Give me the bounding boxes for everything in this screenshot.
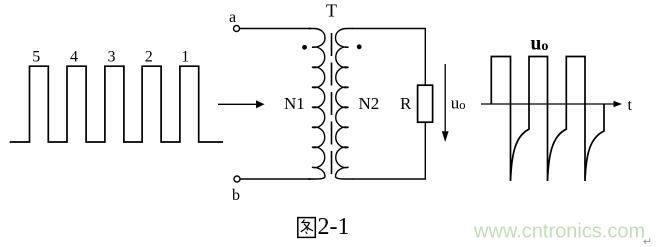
output waveform uo trace [491, 57, 604, 182]
wire resistor bottom to N2 bottom [352, 122, 425, 179]
svg-text:R: R [400, 94, 412, 113]
caption figure 2-1 : hanzi tu drawn as strokes [298, 218, 316, 238]
wire b to N1 bottom [240, 178, 311, 180]
input signal arrow [218, 100, 265, 108]
svg-text:3: 3 [108, 49, 116, 66]
svg-text:2-1: 2-1 [318, 214, 350, 240]
polarity dot secondary [357, 44, 362, 49]
svg-text:T: T [326, 1, 337, 21]
svg-text:4: 4 [70, 49, 78, 66]
svg-text:1: 1 [181, 49, 189, 66]
output voltage arrow uo [442, 64, 449, 142]
polarity dot primary [302, 45, 307, 50]
svg-text:2: 2 [145, 49, 153, 66]
svg-text:↵: ↵ [643, 236, 652, 247]
svg-text:N1: N1 [284, 94, 305, 113]
transformer secondary winding N2 [336, 29, 353, 180]
wire N2 top to resistor [352, 29, 425, 86]
input pulse train waveform [10, 66, 223, 142]
output waveform axis t [481, 101, 622, 107]
terminal a [234, 26, 240, 32]
wire a to N1 top [240, 28, 311, 30]
svg-text:N2: N2 [359, 94, 380, 113]
transformer primary winding N1 [308, 29, 325, 180]
svg-text:www.cntronics.com: www.cntronics.com [473, 221, 645, 243]
svg-text:t: t [628, 97, 633, 114]
svg-text:b: b [232, 187, 240, 204]
svg-text:a: a [229, 9, 236, 26]
resistor R [418, 85, 433, 122]
svg-text:5: 5 [32, 49, 40, 66]
terminal b [234, 176, 240, 182]
transformer core [331, 33, 333, 180]
